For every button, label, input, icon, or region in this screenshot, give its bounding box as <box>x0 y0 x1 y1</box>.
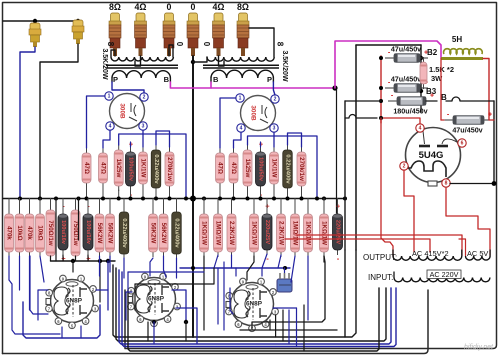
label T1 P <box>113 75 118 84</box>
wire PSU cap+ rail <box>420 45 422 112</box>
svg-text:8: 8 <box>445 181 448 187</box>
svg-text:3.5K/20W: 3.5K/20W <box>101 48 108 80</box>
wire subbus to tube V3 <box>72 261 74 272</box>
choke 5H coil <box>444 49 483 54</box>
svg-text:220u/25V: 220u/25V <box>264 220 270 245</box>
svg-text:P: P <box>113 75 118 84</box>
node bus x78.5 <box>77 197 81 201</box>
wire blue sub-bus <box>180 267 290 269</box>
wire subbus drop4 <box>87 255 89 261</box>
wire drop4 <box>99 256 101 276</box>
label INPUT: <box>368 273 393 282</box>
resistor 750Ω/1w @x75.5 <box>71 205 80 261</box>
wire main bus <box>3 198 345 200</box>
node bus center <box>190 196 196 202</box>
node bus x345 <box>343 197 347 201</box>
node red 118 <box>379 116 383 120</box>
node V4 right <box>184 320 188 324</box>
svg-text:AC 220V: AC 220V <box>430 270 459 279</box>
wire blue loop V3 <box>23 302 100 338</box>
svg-text:0.22u/400v: 0.22u/400v <box>121 218 127 248</box>
wire bluebus drop a <box>214 255 218 268</box>
wire top lead x218 <box>217 199 219 211</box>
wire red long H2 <box>285 239 430 252</box>
pin V3-7 <box>46 305 53 312</box>
node bus x103 <box>101 197 105 201</box>
wire drop5 <box>109 256 111 272</box>
node bus x324 <box>322 197 326 201</box>
svg-text:10kΩ: 10kΩ <box>37 225 44 240</box>
wire drop1 <box>19 256 21 290</box>
wire T2 B lead <box>210 78 212 82</box>
svg-text:470k: 470k <box>6 226 13 240</box>
label OUTPUT: <box>363 253 397 262</box>
transformer T1 core <box>106 65 178 68</box>
RCA jack J2 <box>72 20 84 44</box>
label B2 <box>427 48 438 57</box>
pin V2-3 <box>270 124 278 132</box>
node bus x247.5 <box>246 197 250 201</box>
tube V3 6N8P <box>46 280 94 323</box>
wire V2 pin3 lead <box>273 133 275 148</box>
wire top lead x308 <box>307 199 309 211</box>
node capneg1 <box>379 56 383 60</box>
resistor 2.2K/1W @x281 <box>277 209 286 257</box>
RCA jack J1 <box>29 23 41 47</box>
resistor 1K/1W R@x274 <box>270 147 279 189</box>
svg-text:1MΩ/1W: 1MΩ/1W <box>215 221 222 246</box>
resistor 56K2W @x99.5 <box>95 209 104 257</box>
pin V6-8 <box>442 179 450 187</box>
wire bluebus drop trimpot <box>284 268 286 273</box>
wire from J2 (signal, black) <box>40 44 78 199</box>
svg-text:+: + <box>265 202 270 211</box>
svg-text:100u/16v: 100u/16v <box>85 220 91 245</box>
label T2 sec 8 <box>276 42 285 47</box>
pin V3-9 <box>60 275 67 282</box>
node bus x130.5 <box>129 197 133 201</box>
pin V4-9 <box>142 273 149 280</box>
pin V6-6 <box>458 139 466 147</box>
wire V5 right pin wire2 <box>273 307 297 309</box>
wire top lead x176.5 <box>176 199 178 209</box>
wire choke out red <box>483 59 489 121</box>
pin V5-5 <box>249 325 256 332</box>
svg-text:2: 2 <box>403 164 406 170</box>
pin V5-6 <box>235 321 242 328</box>
wire top lead x88 <box>87 199 89 211</box>
capacitor 0.22u/400v R@x287.5 <box>283 145 293 193</box>
node bus x143 <box>141 197 145 201</box>
node subbus 108 <box>106 259 110 263</box>
svg-text:180u/450v: 180u/450v <box>393 106 427 115</box>
capacitor 0.22u/400v @x176.5 <box>172 207 182 259</box>
wire sub-bus V3 <box>51 260 116 262</box>
label 1.5K *2 <box>429 65 454 74</box>
resistor 1.5K 3W <box>420 57 427 89</box>
watermark <box>464 344 494 351</box>
wire V5 blue left2 <box>235 268 237 276</box>
wire drop11 <box>323 256 325 262</box>
node bus x56 <box>54 197 58 201</box>
wire L169.5 to bus <box>169 190 171 199</box>
wire V4 top drop <box>150 258 153 276</box>
transformer T2 secondary coil <box>207 57 274 61</box>
wire PT primary left stub <box>393 272 395 278</box>
wire V4 bottom stub2 <box>153 322 155 344</box>
wire top lead x324 <box>323 199 325 211</box>
pin V3-5 <box>69 322 76 329</box>
wire row1L film top <box>156 131 170 147</box>
resistor 1MΩ/1W @x218 <box>214 209 223 257</box>
wire top lead x50.5 <box>50 199 52 207</box>
capacitor 0.22u/400v @x124 <box>119 207 129 259</box>
svg-text:220u/25V: 220u/25V <box>335 220 341 245</box>
resistor 10kΩ @x19.5 <box>15 209 24 257</box>
svg-text:6N8P: 6N8P <box>66 298 83 305</box>
wire R301.5 to bus <box>301 190 303 199</box>
wire V4 right down <box>185 322 187 341</box>
speaker terminal 4Ω #5 <box>213 2 225 56</box>
wire L143 to bus <box>142 188 144 199</box>
svg-text:56K2W: 56K2W <box>150 223 157 244</box>
capacitor 0.22u/400v L@x156 <box>151 145 161 193</box>
svg-text:47u/450v: 47u/450v <box>391 74 421 83</box>
wire L156 to bus <box>155 192 157 199</box>
capacitor 220u/25V @x337.5 <box>333 202 343 264</box>
svg-text:1K/1W: 1K/1W <box>271 159 278 178</box>
node bus x260.5 <box>259 197 263 201</box>
svg-text:6N8P: 6N8P <box>148 296 165 303</box>
wire drop0 <box>8 256 10 280</box>
svg-text:3: 3 <box>273 126 276 132</box>
wire pin8 to right rail <box>450 183 494 185</box>
wire top lead x267 <box>266 199 268 211</box>
resistor 47Ω R@x233.5 <box>229 148 238 188</box>
node bus x40 <box>38 197 42 201</box>
svg-text:750Ω/1w: 750Ω/1w <box>47 220 54 245</box>
pin V4-1 <box>160 273 167 280</box>
label B3 <box>426 87 437 96</box>
node V4 bottom <box>152 320 156 324</box>
wire R220 to bus <box>219 187 221 199</box>
pin V4-3 <box>174 303 181 310</box>
wire bus b3 heater blue <box>119 270 391 344</box>
resistor 270k/1w L@x169.5 <box>165 147 174 191</box>
wire V5 drop1 <box>275 315 277 337</box>
svg-text:4Ω: 4Ω <box>135 2 147 12</box>
wire L103 to bus <box>102 187 104 199</box>
wire V2 pin1 lead <box>220 98 236 148</box>
tube V1 300B <box>110 94 145 129</box>
pin V3-2 <box>90 286 97 293</box>
wire misc vert345 <box>344 101 346 250</box>
transformer T2 core <box>203 65 279 68</box>
wire top lead x19.5 <box>19 199 21 211</box>
svg-text:1MΩ/1W: 1MΩ/1W <box>292 221 299 246</box>
wire bus b2 <box>116 268 386 341</box>
wire terminal 4ohm to T2 tap <box>219 56 225 66</box>
svg-text:8Ω: 8Ω <box>237 2 249 12</box>
svg-text:8: 8 <box>276 42 285 47</box>
pin V4-8 <box>128 287 135 294</box>
wire V5 top lead2 <box>261 268 263 276</box>
svg-text:B2: B2 <box>427 48 438 57</box>
svg-text:100u/16v: 100u/16v <box>60 220 66 245</box>
node B3 <box>419 89 423 93</box>
transformer T2 primary coil <box>211 70 273 78</box>
tube V2 300B <box>241 96 276 131</box>
wire 0 to T2 sec left <box>193 57 207 62</box>
pin V1-2 <box>140 93 148 101</box>
capacitor 100u/16v @x88 <box>83 202 93 264</box>
wire V5 left drops <box>223 262 225 330</box>
svg-text:5H: 5H <box>452 35 462 44</box>
transformer PT primary <box>394 278 490 282</box>
wire V2 pin4 lead <box>234 133 242 149</box>
pin V4-6 <box>137 316 144 323</box>
svg-text:hifidiy.net: hifidiy.net <box>464 344 494 351</box>
node bus x287.5 <box>286 197 290 201</box>
capacitor 220u/25V @x267 <box>262 202 272 264</box>
wire top lead x295 <box>294 199 296 211</box>
wire PSU left vertical <box>355 45 357 250</box>
pin V4-2 <box>172 284 179 291</box>
wire subbus drop2 <box>62 255 64 261</box>
label AC 220V box <box>427 270 461 279</box>
svg-text:2.2K/1W: 2.2K/1W <box>278 221 285 245</box>
trimpot hum balance <box>277 273 292 292</box>
wire top lead x153 <box>152 199 154 211</box>
wire row1R loop <box>248 136 318 199</box>
wire top lead x163.5 <box>163 199 165 211</box>
wire terminal 0 to T1 sec right <box>169 45 173 57</box>
svg-text:270k/1w: 270k/1w <box>298 157 305 181</box>
svg-text:4: 4 <box>419 126 422 132</box>
wire top lead x231.5 <box>231 199 233 211</box>
wire top lead x281 <box>280 199 282 211</box>
resistor 47Ω L@x86.5 <box>82 148 91 188</box>
wire R287.5 to bus <box>287 192 289 199</box>
node capneg3 <box>379 99 383 103</box>
resistor 56K2W @x163.5 <box>159 209 168 257</box>
svg-text:B: B <box>213 75 219 84</box>
svg-text:6: 6 <box>461 141 464 147</box>
resistor 56K2W @x110 <box>106 209 115 257</box>
svg-text:4Ω: 4Ω <box>213 2 225 12</box>
capacitor C-B2 47u/450v <box>385 44 428 62</box>
svg-text:270k/1w: 270k/1w <box>166 157 173 181</box>
wire V5 left drops2 <box>217 268 219 324</box>
svg-text:INPUT:: INPUT: <box>368 273 393 282</box>
wire subbus drop3 <box>75 256 77 261</box>
wire red 5V left stub <box>459 239 466 256</box>
speaker terminal 4Ω #2 <box>135 2 147 56</box>
svg-text:8: 8 <box>106 42 115 47</box>
tube V4 6N8P <box>128 278 176 321</box>
wire drop6 <box>123 258 125 278</box>
node bus x301.5 <box>300 197 304 201</box>
wire subbus right down2 <box>99 261 101 302</box>
wire C4 left <box>441 119 444 121</box>
speaker terminal 0 #4 <box>187 2 199 56</box>
wire magenta to choke <box>335 41 441 88</box>
wire bus b6 <box>128 288 379 351</box>
svg-text:P: P <box>267 75 272 84</box>
svg-text:2.2K/1W: 2.2K/1W <box>228 221 235 245</box>
wire Bplus decoupling drop <box>336 90 338 213</box>
wire L86.5 to bus <box>86 187 88 199</box>
resistor 1MΩ/1W @x295 <box>291 209 300 257</box>
wire B row2 <box>446 97 494 101</box>
node bus x317 <box>315 197 319 201</box>
wire mid blue h272b <box>128 271 204 273</box>
wire mid black h284 <box>134 284 136 310</box>
wire top lead x63 <box>62 199 64 211</box>
wire R233.5 to bus <box>233 187 235 199</box>
svg-text:0: 0 <box>175 42 184 47</box>
node bus x233.5 <box>232 197 236 201</box>
wire y330 line <box>240 329 337 331</box>
wire L130.5 to bus <box>130 190 132 199</box>
label AC 415V*2 <box>412 249 449 258</box>
pin V5-4 <box>262 321 269 328</box>
node input L <box>33 19 37 23</box>
svg-text:0.22u/400v: 0.22u/400v <box>285 154 291 184</box>
wire from J1 (signal, blue) <box>20 47 35 199</box>
wire R274 to bus <box>273 188 275 199</box>
svg-text:2: 2 <box>274 97 277 103</box>
wire V3 left wire <box>30 256 48 314</box>
svg-text:3: 3 <box>142 124 145 130</box>
node B2 <box>419 56 423 60</box>
wire V5 blue left <box>230 288 233 314</box>
wire top lead x124 <box>123 199 125 209</box>
svg-text:1: 1 <box>239 96 242 102</box>
speaker terminal 8Ω #1 <box>109 2 121 56</box>
wire V1 pin3 lead <box>142 131 144 148</box>
label T1 3.5K/20W <box>101 48 108 80</box>
wire y322 line <box>252 256 325 328</box>
svg-text:0.22u/400v: 0.22u/400v <box>153 154 159 184</box>
pin V3-4 <box>82 318 89 325</box>
resistor 47Ω R@x220 <box>216 148 225 188</box>
svg-text:47Ω: 47Ω <box>100 162 107 174</box>
wire top lead x75.5 <box>75 199 77 207</box>
wire V3 top wires <box>55 199 57 262</box>
svg-text:1: 1 <box>108 94 111 100</box>
node magenta junction <box>332 85 337 90</box>
wire terminal 4ohm to T1 tap <box>135 56 141 66</box>
label T2 B <box>213 75 219 84</box>
svg-text:10kΩ: 10kΩ <box>16 225 23 240</box>
wire drop2 <box>29 256 31 310</box>
resistor 1KΩ/1W @x308 <box>304 209 313 257</box>
wire V5 drop3 <box>303 305 305 351</box>
wire R260.5 to bus <box>260 190 262 199</box>
wire drop8 <box>203 256 205 330</box>
label B <box>441 93 447 102</box>
wire misc Brow-left <box>345 100 381 102</box>
wire top lead x9 <box>8 199 10 211</box>
node bluebus 193 <box>191 266 195 270</box>
svg-text:47Ω: 47Ω <box>217 162 224 174</box>
transformer PT secondary HV <box>393 256 462 260</box>
node capneg2 <box>379 86 383 90</box>
wire V5 right pin wire <box>269 320 271 330</box>
wire bluebus drop d <box>278 255 281 268</box>
svg-text:300B: 300B <box>119 103 126 119</box>
svg-text:47u/450v: 47u/450v <box>391 44 421 53</box>
pin V1-4 <box>106 122 114 130</box>
svg-text:4: 4 <box>240 126 243 132</box>
wire T2 P lead <box>272 78 274 82</box>
svg-text:56K2W: 56K2W <box>160 223 167 244</box>
wire V4 bottom stub <box>147 322 149 341</box>
speaker terminal 8Ω #6 <box>237 2 249 56</box>
wire C4 right <box>489 119 494 121</box>
wire mid black h284b <box>135 268 214 284</box>
pin V5-1 <box>258 278 265 285</box>
border frame bottom <box>3 290 429 354</box>
node bus x204 <box>202 197 206 201</box>
svg-text:8Ω: 8Ω <box>109 2 121 12</box>
node bus x118.7 <box>117 197 121 201</box>
resistor 47Ω L@x103 <box>99 148 108 188</box>
wire V4 top drop2 <box>164 256 167 277</box>
wire V5 drop blue2 <box>296 308 298 347</box>
wire V1 pin4 lead <box>103 131 110 149</box>
svg-text:1K/1W: 1K/1W <box>140 159 147 178</box>
resistor 750Ω/1w @x50.5 <box>46 205 55 261</box>
wire center 0 vertical <box>192 56 194 337</box>
svg-text:0: 0 <box>167 2 172 12</box>
node bus x156 <box>154 197 158 201</box>
wire V3 right link <box>96 289 108 291</box>
capacitor C-B 180u/450v <box>388 93 434 116</box>
wire T2 P to V2 pin2 <box>273 82 275 95</box>
wire V3 pin drop a <box>61 327 63 338</box>
pin V2-2 <box>271 95 279 103</box>
svg-text:+: + <box>488 112 492 119</box>
wire T1 P lead <box>111 78 113 82</box>
pin V2-1 <box>236 94 244 102</box>
wire red pin8 5V <box>446 188 490 256</box>
wire drop9 <box>291 256 295 282</box>
resistor 1k25w L@x118.7 <box>114 145 123 191</box>
wire hop 118 <box>345 115 377 119</box>
pin V6-2 <box>400 162 408 170</box>
svg-text:100u/50v: 100u/50v <box>258 157 264 182</box>
wire top lead x254 <box>253 199 255 211</box>
svg-text:47u/450v: 47u/450v <box>452 125 482 134</box>
wire V4 right blue2 <box>176 308 197 344</box>
svg-text:+: + <box>259 140 264 149</box>
pin V5-7 <box>226 308 233 315</box>
svg-text:1k25w: 1k25w <box>115 159 122 178</box>
wire PT 5V right stub <box>489 250 491 256</box>
svg-text:AC 5V: AC 5V <box>467 249 488 258</box>
wire row1R cap top <box>260 142 262 147</box>
capacitor C-B3 47u/450v <box>385 74 428 92</box>
svg-text:47Ω: 47Ω <box>230 162 237 174</box>
wire bus b4 heater blue <box>122 272 396 347</box>
wire top lead x40 <box>39 199 41 211</box>
wire PT HV left stub <box>392 250 394 256</box>
pin V5-3 <box>272 308 279 315</box>
node bluebus 285 <box>283 266 287 270</box>
wire red left rail <box>381 118 393 256</box>
